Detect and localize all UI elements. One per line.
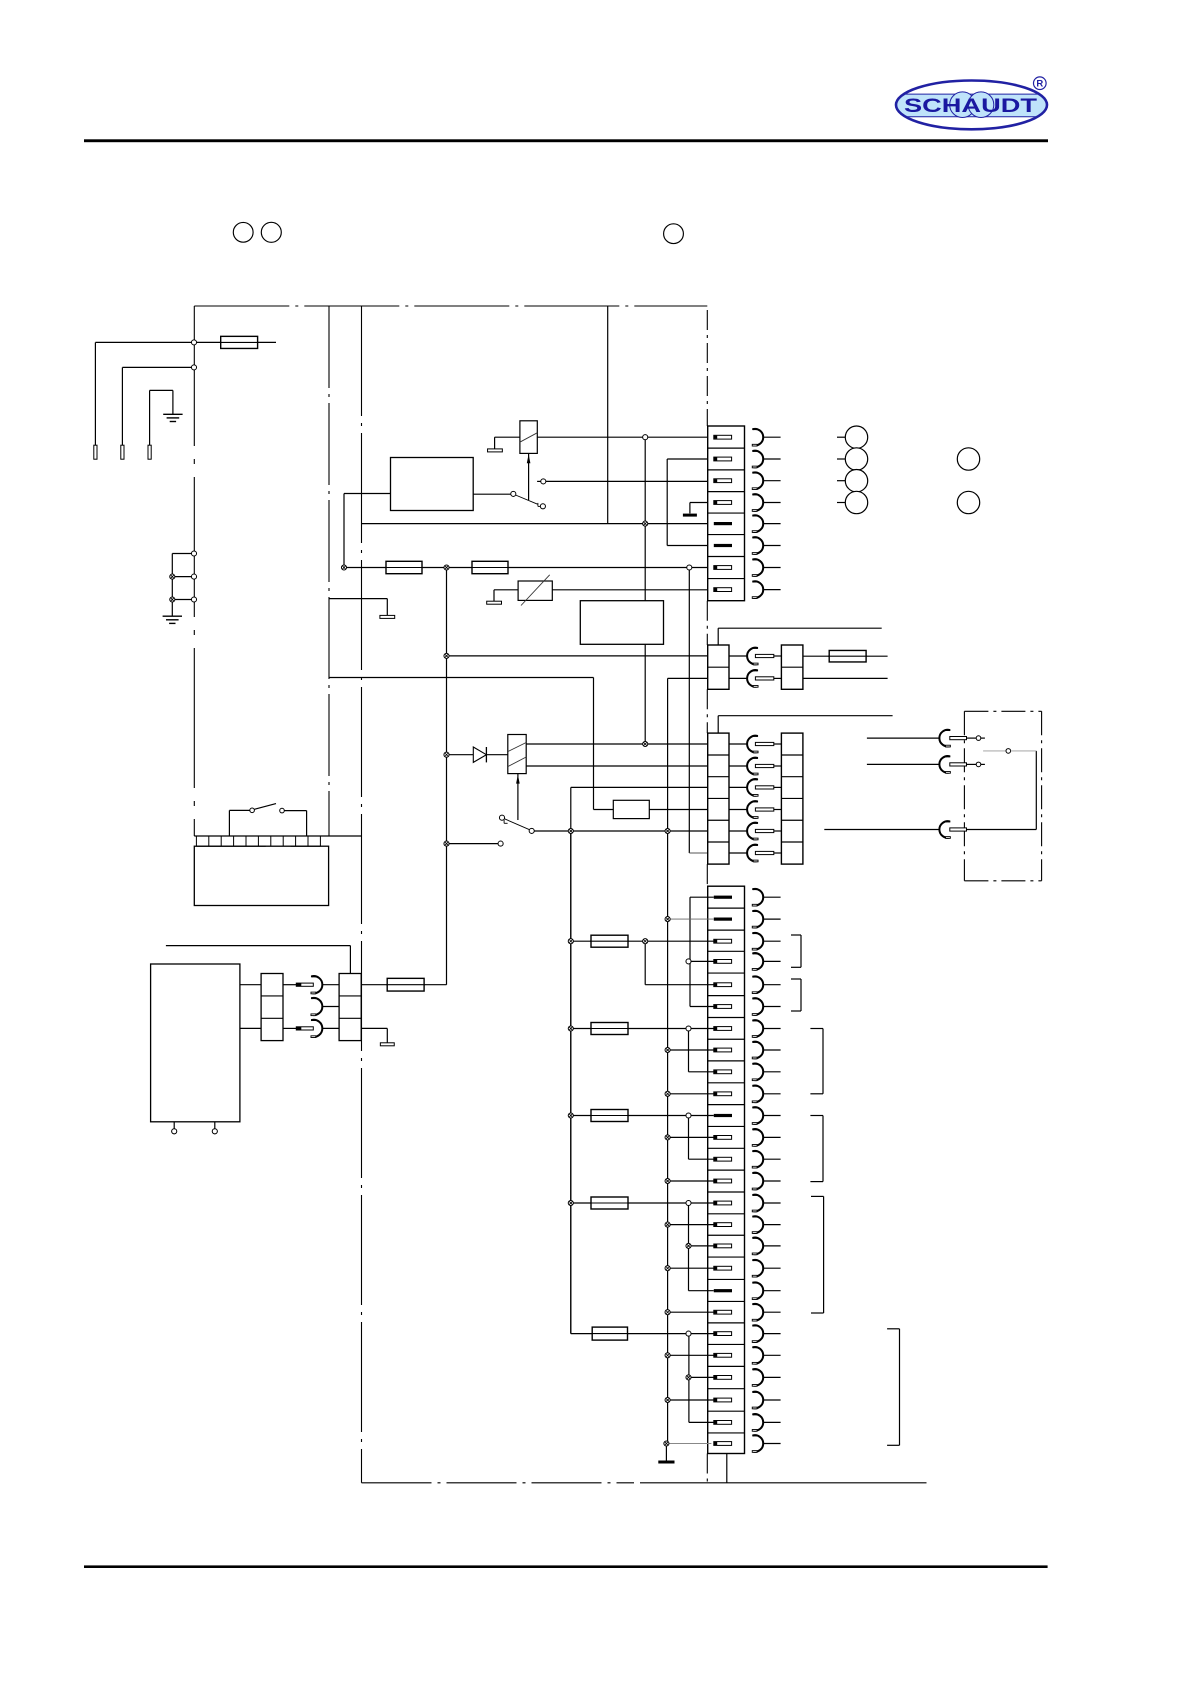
svg-text:R: R xyxy=(1036,79,1043,90)
svg-text:SCHAUDT: SCHAUDT xyxy=(904,95,1037,117)
